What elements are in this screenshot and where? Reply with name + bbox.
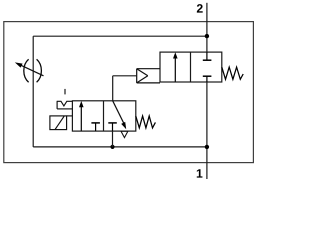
port label 2	[197, 4, 203, 13]
enclosure border frame	[4, 22, 254, 163]
valve V1 right box blocked port	[108, 123, 117, 131]
node A junction dot	[205, 34, 209, 38]
valve V1 detent symbol	[57, 89, 73, 109]
throttle valve F1 adjustment arrow	[15, 62, 44, 75]
valve U1 pneumatic pilot symbol	[137, 69, 160, 83]
valve V1 left box blocked port	[91, 123, 100, 131]
port label 1	[197, 169, 203, 177]
valve V1 body (3/2 manual valve)	[72, 101, 135, 131]
valve V1 divider	[103, 101, 105, 131]
valve U1 divider	[190, 52, 192, 82]
valve V1 exhaust triangle	[121, 131, 128, 137]
valve V1 left box flow arrow	[79, 101, 84, 131]
wire: main line from port 2 down to valve U1 top port	[206, 3, 208, 52]
valve U1 return spring	[222, 67, 243, 79]
valve V1 right box exhaust flow diagonal arrow	[113, 101, 127, 129]
valve U1 left box flow arrow	[173, 52, 178, 81]
throttle valve F1 arcs	[24, 59, 42, 82]
wire: valve V1 output up to pilot line	[112, 76, 114, 101]
valve V1 return spring	[136, 116, 156, 128]
wire: main line from valve U1 bottom port down to port 1	[206, 82, 208, 179]
wire: top rail from node A left to throttle branch	[33, 35, 207, 37]
wire: bottom rail to node C	[33, 146, 207, 148]
node B junction dot	[110, 145, 114, 149]
valve U1 body (2/2 pilot valve)	[160, 52, 222, 82]
valve U1 right box blocked port top	[203, 52, 212, 60]
wire: pilot line from valve V1 output to U1 pilot	[113, 75, 137, 77]
valve V1 manual actuator box	[50, 116, 73, 130]
wire: valve V1 supply port down to node B	[112, 131, 114, 147]
node C junction dot	[205, 145, 209, 149]
wire: left rail through throttle	[32, 36, 34, 147]
valve U1 right box blocked port bottom	[203, 76, 212, 82]
